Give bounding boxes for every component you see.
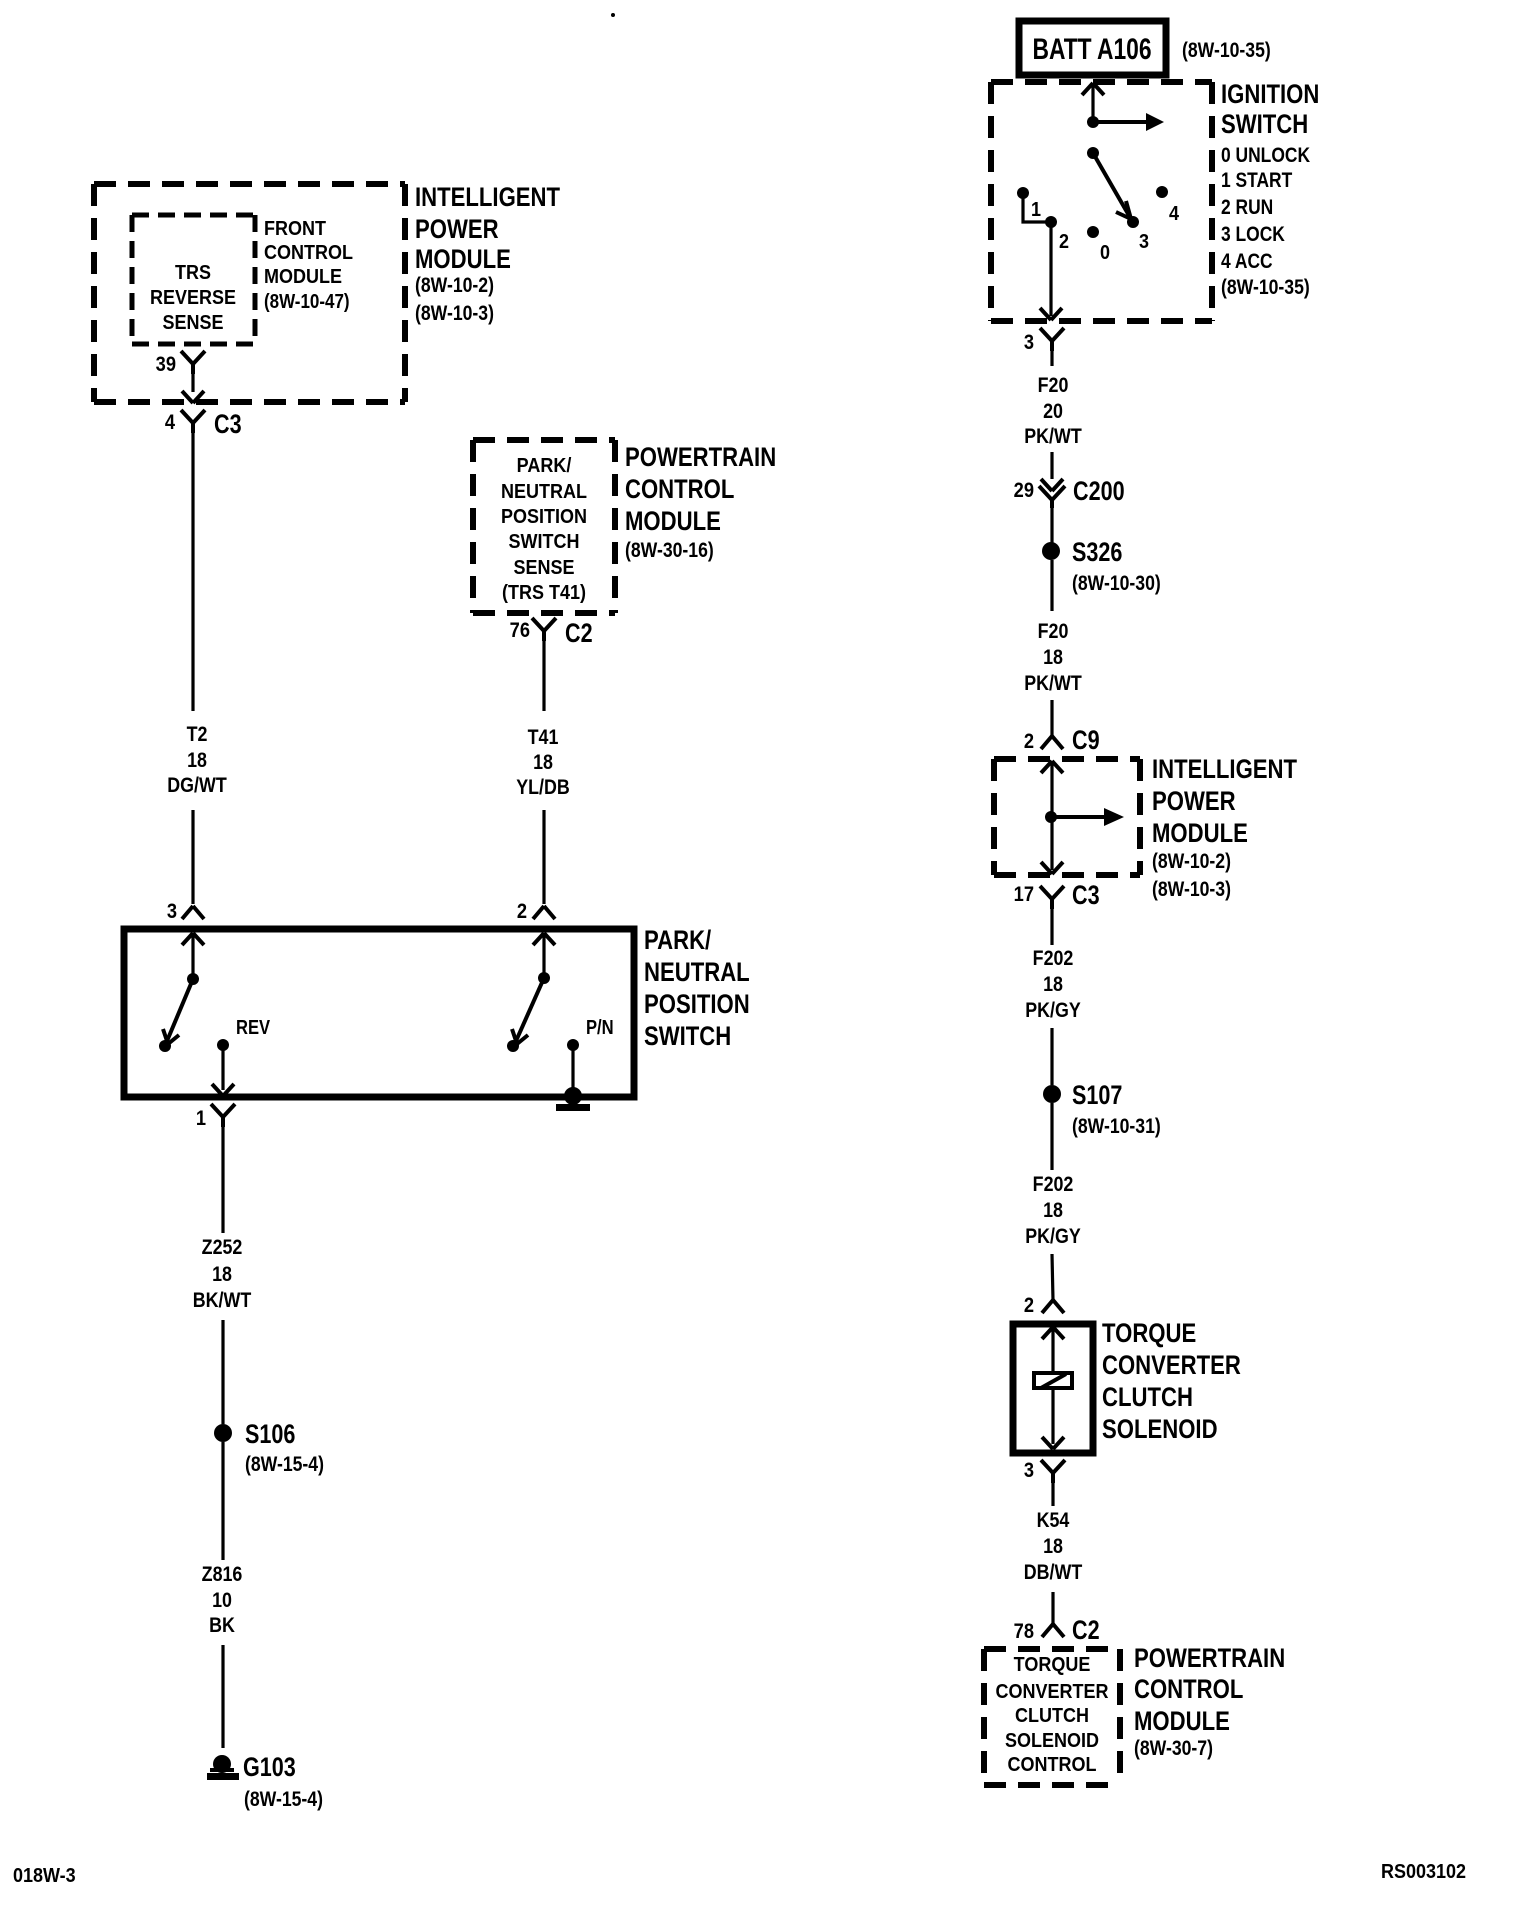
svg-text:POWERTRAIN: POWERTRAIN bbox=[1134, 1644, 1285, 1674]
label IGNITION SWITCH positions bbox=[1221, 80, 1319, 299]
svg-text:3: 3 bbox=[167, 900, 177, 923]
svg-text:(8W-10-47): (8W-10-47) bbox=[264, 290, 350, 313]
svg-text:G103: G103 bbox=[243, 1753, 296, 1783]
svg-text:C200: C200 bbox=[1073, 477, 1125, 507]
switch contact dot right bbox=[507, 1040, 519, 1052]
ignition rotor pivot dot bbox=[1087, 147, 1099, 159]
svg-text:F202: F202 bbox=[1033, 947, 1074, 971]
svg-text:PARK/: PARK/ bbox=[644, 926, 711, 956]
svg-text:POWERTRAIN: POWERTRAIN bbox=[625, 443, 776, 473]
svg-text:REVERSE: REVERSE bbox=[150, 287, 236, 309]
label PARK/NEUTRAL POSITION SWITCH SENSE (TRS T41) bbox=[501, 455, 587, 604]
ignition position 0 dot bbox=[1087, 226, 1110, 264]
connector C2 pin 78 bbox=[1014, 1616, 1100, 1646]
pin 3 connector below ignition switch bbox=[1024, 328, 1064, 354]
svg-text:C3: C3 bbox=[214, 410, 242, 440]
wire inside IPM upper bbox=[1050, 761, 1053, 817]
svg-text:SWITCH: SWITCH bbox=[509, 531, 580, 553]
svg-text:F20: F20 bbox=[1038, 620, 1069, 644]
wire Z816 upper segment bbox=[221, 1442, 224, 1560]
wire F20-20 lower segment bbox=[1050, 452, 1053, 479]
connector C3 pin 4 bbox=[165, 410, 242, 440]
contact REV dot bbox=[217, 1016, 271, 1051]
arrow leaving ignition switch bbox=[1040, 308, 1062, 320]
svg-text:18: 18 bbox=[212, 1263, 232, 1287]
label POWERTRAIN CONTROL MODULE (8W-30-16) bbox=[625, 443, 776, 562]
pin 39 connector (female) bbox=[156, 351, 205, 376]
label INTELLIGENT POWER MODULE (right) bbox=[1152, 755, 1297, 901]
svg-text:(8W-10-2): (8W-10-2) bbox=[415, 274, 494, 298]
wire pin2 to switch pivot bbox=[542, 933, 545, 978]
wire inside IPM lower bbox=[1050, 817, 1053, 870]
svg-text:1: 1 bbox=[196, 1107, 206, 1130]
arrow at IPM box exit bbox=[182, 391, 204, 403]
pin 2 connector of TCC solenoid bbox=[1024, 1294, 1064, 1317]
wire label K54 18 DB/WT bbox=[1024, 1509, 1083, 1585]
svg-text:C3: C3 bbox=[1072, 881, 1100, 911]
svg-text:(8W-10-2): (8W-10-2) bbox=[1152, 850, 1231, 874]
svg-text:18: 18 bbox=[1043, 1535, 1063, 1559]
ground G103 symbol bbox=[207, 1753, 323, 1812]
svg-text:(8W-10-30): (8W-10-30) bbox=[1072, 572, 1161, 596]
switch blade REV (thrown) bbox=[163, 979, 193, 1044]
svg-text:78: 78 bbox=[1014, 1620, 1034, 1643]
svg-text:(8W-15-4): (8W-15-4) bbox=[244, 1788, 323, 1812]
svg-text:C2: C2 bbox=[565, 619, 593, 649]
splice S107 bbox=[1043, 1081, 1161, 1139]
svg-text:BK: BK bbox=[209, 1614, 235, 1638]
svg-text:P/N: P/N bbox=[586, 1016, 614, 1039]
arrow to other IPM circuits bbox=[1051, 808, 1124, 826]
arrow leaving switch box pin 1 bbox=[212, 1084, 234, 1096]
svg-text:NEUTRAL: NEUTRAL bbox=[501, 481, 587, 503]
svg-text:MODULE: MODULE bbox=[1152, 819, 1248, 849]
connector C9 pin 2 bbox=[1024, 726, 1100, 756]
svg-text:18: 18 bbox=[187, 749, 207, 773]
wire label Z816 10 BK bbox=[202, 1563, 243, 1638]
svg-text:DG/WT: DG/WT bbox=[167, 774, 227, 798]
wire F202 segment 2 bbox=[1050, 1028, 1053, 1085]
svg-text:3 LOCK: 3 LOCK bbox=[1221, 224, 1285, 247]
svg-text:76: 76 bbox=[510, 619, 530, 642]
pin 3 connector of park/neutral position switch bbox=[167, 900, 204, 923]
svg-text:(8W-10-35): (8W-10-35) bbox=[1182, 39, 1271, 63]
wire label T41 18 YL/DB bbox=[516, 726, 569, 800]
connector C3 pin 17 bbox=[1014, 881, 1100, 911]
wire label F202 18 PK/GY (upper) bbox=[1025, 947, 1081, 1023]
svg-text:3: 3 bbox=[1024, 331, 1034, 354]
wire F202 segment 4 bbox=[1052, 1254, 1053, 1300]
ignition rotor blade to position 3 bbox=[1093, 153, 1131, 219]
switch blade P/N (thrown) bbox=[512, 978, 544, 1044]
ignition common node dot bbox=[1087, 116, 1099, 128]
svg-text:SOLENOID: SOLENOID bbox=[1005, 1730, 1099, 1752]
ignition position 4 dot bbox=[1156, 186, 1179, 225]
svg-text:Z252: Z252 bbox=[202, 1236, 243, 1260]
svg-text:TORQUE: TORQUE bbox=[1014, 1654, 1091, 1676]
in-line connector C200 pin 29 bbox=[1014, 477, 1125, 508]
svg-text:SENSE: SENSE bbox=[514, 557, 575, 579]
module IPM (Front Control Module) dashed box bbox=[94, 184, 405, 402]
svg-text:CONTROL: CONTROL bbox=[1134, 1675, 1243, 1705]
wire T41 lower segment bbox=[542, 810, 545, 904]
connector C2 pin 76 bbox=[510, 618, 593, 649]
svg-text:POSITION: POSITION bbox=[644, 990, 750, 1020]
svg-text:10: 10 bbox=[212, 1589, 232, 1613]
page label RS003102 bbox=[1381, 1861, 1466, 1883]
svg-text:C9: C9 bbox=[1072, 726, 1100, 756]
svg-text:(TRS T41): (TRS T41) bbox=[502, 582, 586, 604]
wire Z252 upper segment bbox=[221, 1127, 224, 1233]
wire Z816 lower segment bbox=[221, 1645, 224, 1748]
svg-text:2 RUN: 2 RUN bbox=[1221, 197, 1273, 220]
ground symbol inside switch (case ground) bbox=[556, 1087, 590, 1111]
label POWERTRAIN CONTROL MODULE (8W-30-7) bbox=[1134, 1644, 1285, 1760]
svg-text:TORQUE: TORQUE bbox=[1102, 1319, 1196, 1349]
label PARK/NEUTRAL POSITION SWITCH bbox=[644, 926, 750, 1052]
svg-text:RS003102: RS003102 bbox=[1381, 1861, 1466, 1883]
wire label F202 18 PK/GY (lower) bbox=[1025, 1173, 1081, 1249]
svg-text:PK/GY: PK/GY bbox=[1025, 999, 1081, 1023]
wire REV contact to box edge bbox=[221, 1045, 224, 1090]
wire from solenoid coil bbox=[1051, 1388, 1054, 1444]
svg-text:POWER: POWER bbox=[1152, 787, 1236, 817]
svg-text:INTELLIGENT: INTELLIGENT bbox=[1152, 755, 1297, 785]
svg-text:MODULE: MODULE bbox=[264, 266, 342, 288]
arrow to BATT A106 at ignition box edge bbox=[1082, 83, 1104, 95]
solenoid coil symbol bbox=[1034, 1373, 1072, 1388]
svg-text:17: 17 bbox=[1014, 883, 1034, 906]
svg-text:CONVERTER: CONVERTER bbox=[1102, 1351, 1241, 1381]
wire K54 lower segment bbox=[1051, 1592, 1054, 1624]
svg-text:CONTROL: CONTROL bbox=[625, 475, 734, 505]
component box TORQUE CONVERTER CLUTCH SOLENOID bbox=[1013, 1324, 1093, 1453]
arrow leaving TCC solenoid box bbox=[1042, 1437, 1064, 1449]
svg-text:4 ACC: 4 ACC bbox=[1221, 251, 1273, 274]
label INTELLIGENT POWER MODULE bbox=[415, 183, 560, 325]
wire to S326 bbox=[1050, 508, 1053, 543]
svg-text:MODULE: MODULE bbox=[1134, 1707, 1230, 1737]
svg-text:BATT A106: BATT A106 bbox=[1032, 32, 1151, 66]
label FRONT CONTROL MODULE (8W-10-47) bbox=[264, 218, 353, 312]
wire label T2 18 DG/WT bbox=[167, 723, 227, 798]
svg-text:S106: S106 bbox=[245, 1420, 295, 1450]
scan speck top bbox=[611, 13, 615, 17]
switch contact dot left bbox=[159, 1040, 171, 1052]
ignition position 3 dot bbox=[1127, 216, 1149, 253]
svg-text:IGNITION: IGNITION bbox=[1221, 80, 1319, 110]
svg-text:39: 39 bbox=[156, 353, 176, 376]
ignition position 1 dot bbox=[1017, 187, 1041, 221]
svg-text:1 START: 1 START bbox=[1221, 170, 1292, 193]
wire label F20 18 PK/WT bbox=[1024, 620, 1082, 696]
wire pin3 to switch pivot bbox=[191, 933, 194, 979]
svg-text:18: 18 bbox=[1043, 1199, 1063, 1223]
wire F202 segment 3 bbox=[1050, 1103, 1053, 1170]
svg-text:(8W-15-4): (8W-15-4) bbox=[245, 1453, 324, 1477]
svg-text:29: 29 bbox=[1014, 479, 1034, 502]
svg-text:CLUTCH: CLUTCH bbox=[1015, 1705, 1089, 1727]
module IPM dashed box (right) bbox=[994, 759, 1140, 875]
svg-text:F20: F20 bbox=[1038, 374, 1069, 398]
svg-text:S326: S326 bbox=[1072, 538, 1122, 568]
svg-text:3: 3 bbox=[1024, 1459, 1034, 1482]
arrow into switch box at pin 2 bbox=[533, 933, 555, 945]
svg-text:DB/WT: DB/WT bbox=[1024, 1561, 1083, 1585]
svg-text:BK/WT: BK/WT bbox=[193, 1289, 252, 1313]
module PCM (Powertrain Control Module) dashed box bbox=[473, 440, 615, 613]
svg-text:18: 18 bbox=[1043, 973, 1063, 997]
svg-text:3: 3 bbox=[1139, 231, 1149, 253]
svg-text:REV: REV bbox=[236, 1016, 271, 1039]
wire pin39 to IPM edge bbox=[191, 374, 194, 392]
svg-text:2: 2 bbox=[1024, 730, 1034, 753]
pin 3 connector below TCC solenoid bbox=[1024, 1459, 1065, 1483]
wire F20-18 upper segment bbox=[1050, 560, 1053, 611]
svg-text:(8W-10-31): (8W-10-31) bbox=[1072, 1115, 1161, 1139]
wire Z252 lower segment bbox=[221, 1320, 224, 1424]
svg-text:K54: K54 bbox=[1037, 1509, 1070, 1533]
inner function box TRS REVERSE SENSE bbox=[132, 215, 255, 344]
arrow into IPM box bbox=[1041, 761, 1063, 773]
label TRS REVERSE SENSE bbox=[150, 262, 236, 334]
svg-text:TRS: TRS bbox=[175, 262, 211, 284]
svg-text:NEUTRAL: NEUTRAL bbox=[644, 958, 750, 988]
wire position2 down to box edge bbox=[1049, 222, 1052, 316]
wire label F20 20 PK/WT bbox=[1024, 374, 1082, 449]
switch pivot dot left bbox=[187, 973, 199, 985]
splice S106 bbox=[214, 1420, 324, 1477]
svg-text:YL/DB: YL/DB bbox=[516, 776, 569, 800]
svg-text:018W-3: 018W-3 bbox=[13, 1865, 76, 1887]
svg-text:CLUTCH: CLUTCH bbox=[1102, 1383, 1193, 1413]
svg-text:0 UNLOCK: 0 UNLOCK bbox=[1221, 145, 1310, 168]
svg-text:Z816: Z816 bbox=[202, 1563, 243, 1587]
wire T2 upper segment bbox=[191, 433, 194, 711]
wire T41 upper segment bbox=[542, 641, 545, 711]
svg-text:S107: S107 bbox=[1072, 1081, 1122, 1111]
switch pivot dot right bbox=[538, 972, 550, 984]
svg-text:4: 4 bbox=[165, 411, 175, 434]
svg-text:SOLENOID: SOLENOID bbox=[1102, 1415, 1218, 1445]
pin 2 connector of park/neutral position switch bbox=[517, 900, 555, 923]
IPM internal node dot bbox=[1045, 811, 1057, 823]
svg-text:(8W-10-35): (8W-10-35) bbox=[1221, 276, 1310, 300]
svg-text:(8W-10-3): (8W-10-3) bbox=[1152, 878, 1231, 902]
page label 018W-3 bbox=[13, 1865, 76, 1887]
wire BATT feed into switch bbox=[1091, 83, 1094, 122]
svg-text:2: 2 bbox=[1059, 231, 1069, 253]
svg-text:SENSE: SENSE bbox=[163, 312, 224, 334]
pin 1 connector bbox=[196, 1104, 235, 1130]
svg-text:C2: C2 bbox=[1072, 1616, 1100, 1646]
svg-text:SWITCH: SWITCH bbox=[644, 1022, 731, 1052]
svg-text:CONVERTER: CONVERTER bbox=[996, 1681, 1109, 1703]
svg-text:INTELLIGENT: INTELLIGENT bbox=[415, 183, 560, 213]
contact P/N dot bbox=[567, 1016, 614, 1051]
svg-text:2: 2 bbox=[1024, 1294, 1034, 1317]
component box PARK/NEUTRAL POSITION SWITCH bbox=[124, 929, 634, 1097]
module PCM dashed box (bottom) bbox=[984, 1649, 1120, 1785]
wire position1 to position2 bbox=[1023, 193, 1051, 222]
svg-text:1: 1 bbox=[1031, 199, 1041, 221]
wire K54 upper segment bbox=[1051, 1483, 1054, 1506]
arrow leaving IPM box bbox=[1041, 862, 1063, 874]
wire F202 upper segment 1 bbox=[1050, 909, 1053, 945]
splice S326 bbox=[1042, 538, 1161, 596]
svg-text:POWER: POWER bbox=[415, 215, 499, 245]
svg-text:FRONT: FRONT bbox=[264, 218, 326, 240]
svg-text:4: 4 bbox=[1169, 203, 1179, 225]
svg-text:T41: T41 bbox=[528, 726, 559, 750]
svg-text:PARK/: PARK/ bbox=[517, 455, 572, 477]
wire F20-20 upper segment bbox=[1050, 351, 1053, 366]
svg-text:CONTROL: CONTROL bbox=[1008, 1754, 1097, 1776]
svg-text:MODULE: MODULE bbox=[415, 245, 511, 275]
label TORQUE CONVERTER CLUTCH SOLENOID bbox=[1102, 1319, 1241, 1445]
svg-text:MODULE: MODULE bbox=[625, 507, 721, 537]
arrow into TCC solenoid box bbox=[1042, 1327, 1064, 1339]
wire T2 lower segment bbox=[191, 810, 194, 904]
label TORQUE CONVERTER CLUTCH SOLENOID CONTROL bbox=[996, 1654, 1109, 1776]
svg-text:F202: F202 bbox=[1033, 1173, 1074, 1197]
wire label Z252 18 BK/WT bbox=[193, 1236, 252, 1313]
power feed box BATT A106 bbox=[1019, 21, 1271, 75]
svg-text:T2: T2 bbox=[187, 723, 208, 747]
wire P/N contact to ground bbox=[571, 1045, 574, 1093]
svg-text:(8W-30-16): (8W-30-16) bbox=[625, 539, 714, 563]
svg-text:(8W-10-3): (8W-10-3) bbox=[415, 302, 494, 326]
svg-text:SWITCH: SWITCH bbox=[1221, 110, 1308, 140]
svg-text:POSITION: POSITION bbox=[501, 506, 587, 528]
svg-text:CONTROL: CONTROL bbox=[264, 242, 353, 264]
arrow feed to other circuits bbox=[1093, 113, 1164, 131]
svg-text:20: 20 bbox=[1043, 400, 1063, 424]
svg-text:0: 0 bbox=[1100, 242, 1110, 264]
svg-text:PK/WT: PK/WT bbox=[1024, 672, 1082, 696]
svg-text:18: 18 bbox=[533, 751, 553, 775]
svg-text:18: 18 bbox=[1043, 646, 1063, 670]
arrow into switch box at pin 3 bbox=[182, 933, 204, 945]
svg-text:2: 2 bbox=[517, 900, 527, 923]
svg-text:PK/GY: PK/GY bbox=[1025, 1225, 1081, 1249]
wire F20-18 lower segment bbox=[1050, 700, 1053, 736]
component IGNITION SWITCH dashed box bbox=[991, 82, 1212, 321]
svg-text:(8W-30-7): (8W-30-7) bbox=[1134, 1737, 1213, 1761]
ignition position 2 dot bbox=[1045, 216, 1069, 253]
wire to solenoid coil bbox=[1051, 1327, 1054, 1373]
svg-text:PK/WT: PK/WT bbox=[1024, 425, 1082, 449]
